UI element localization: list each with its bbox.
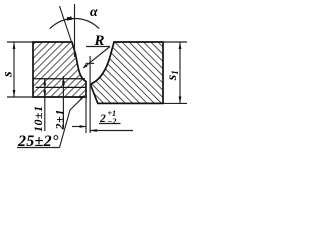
svg-text:s: s [1, 71, 16, 78]
svg-text:10±1: 10±1 [31, 105, 45, 132]
right plate [91, 42, 163, 103]
root gap left edge line [85, 82, 87, 134]
svg-text:α: α [90, 5, 98, 20]
gap label underline [99, 123, 121, 125]
gap dimension left arrow [72, 126, 86, 128]
vertical reference line [74, 4, 76, 57]
dimension 10±1 line [44, 79, 46, 131]
extension line bottom left [7, 96, 33, 98]
left plate [33, 42, 86, 97]
extension line bottom right [163, 102, 187, 104]
radius center tick [86, 62, 95, 64]
25° leader shelf [17, 147, 60, 149]
angle arc alpha [50, 18, 99, 28]
dimension s line [13, 43, 15, 97]
25° leader [60, 96, 85, 148]
internal line lower [36, 86, 86, 88]
svg-text:2±1: 2±1 [53, 109, 67, 131]
svg-text:2: 2 [99, 113, 106, 125]
root gap right edge line [89, 56, 91, 133]
R leader shelf [86, 46, 110, 48]
R leader [83, 47, 110, 68]
extension line top left [7, 41, 33, 43]
internal line upper [33, 78, 85, 80]
svg-text:−2: −2 [108, 117, 117, 126]
extension line top right [163, 41, 187, 43]
dimension 2±1 line [62, 76, 64, 129]
left groove face extension line [60, 6, 72, 43]
dimension s1 line [179, 43, 181, 104]
svg-text:R: R [94, 33, 105, 49]
gap dimension right arrow [90, 130, 133, 132]
